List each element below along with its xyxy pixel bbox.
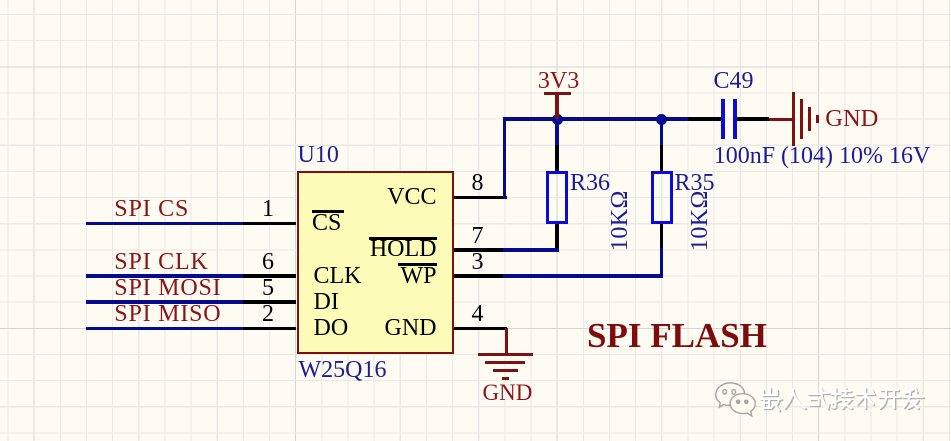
pin label HOLD (pin 7) xyxy=(370,237,437,261)
designator R35 xyxy=(675,171,715,195)
pin label VCC (pin 8) xyxy=(387,185,436,209)
wire to R36 top xyxy=(555,119,558,146)
GND bar 2 (bottom port) xyxy=(485,361,525,364)
pin number 8 xyxy=(472,171,484,195)
pin 5 lead xyxy=(243,300,296,303)
watermark WeChat logo xyxy=(713,381,758,419)
GND bar 3 (right port) xyxy=(808,107,811,131)
pin 4 lead xyxy=(454,327,507,330)
power label GND (right) xyxy=(825,107,878,132)
pin 2 lead xyxy=(243,327,296,330)
pin 7 lead xyxy=(454,248,507,251)
junction at R35 xyxy=(656,114,667,125)
watermark text 嵌入式技术开发 (drawn) xyxy=(759,386,929,414)
pin 3 lead xyxy=(454,274,507,277)
pin number 2 xyxy=(262,302,274,326)
title SPI FLASH xyxy=(587,318,767,353)
pin label DI (pin 5) xyxy=(314,290,339,314)
pin 1 lead xyxy=(243,222,296,225)
wire 3V3 bus xyxy=(503,117,688,120)
power port GND stem (right) xyxy=(769,118,793,121)
power port 3V3 bar xyxy=(544,92,571,95)
designator C49 xyxy=(714,69,754,93)
R35 bottom lead xyxy=(660,224,663,252)
wire to R35 top xyxy=(660,119,663,146)
power label 3V3 xyxy=(538,69,579,93)
net label SPI_MOSI xyxy=(114,276,221,300)
GND bar 1 (bottom port) xyxy=(478,353,533,356)
junction at 3V3/R36 xyxy=(552,114,563,125)
R36 bottom lead xyxy=(555,224,558,252)
power label GND (bottom) xyxy=(483,381,533,404)
overline over HOLD xyxy=(369,237,437,240)
pin number 3 xyxy=(472,250,484,274)
capacitor C49 right lead xyxy=(737,117,769,120)
pin 6 lead xyxy=(243,274,296,277)
pin number 7 xyxy=(472,224,484,248)
GND bar 4 (right port) xyxy=(816,115,819,123)
resistor R35 body xyxy=(651,171,674,225)
pin number 5 xyxy=(262,276,274,300)
capacitor C49 left lead xyxy=(688,117,721,120)
power port GND stem (bottom) xyxy=(505,328,508,355)
wire net SPI_MOSI xyxy=(86,300,243,303)
net label SPI_CS xyxy=(114,197,189,221)
value 10KΩ of R35 xyxy=(688,190,712,251)
designator U10 xyxy=(298,143,339,167)
value 100nF (104) 10% 16V xyxy=(714,144,931,168)
designator R36 xyxy=(570,171,610,195)
capacitor C49 right plate xyxy=(733,99,737,139)
overline over CS xyxy=(312,210,345,213)
value W25Q16 xyxy=(299,358,387,382)
pin label CLK (pin 6) xyxy=(314,264,362,288)
pin number 4 xyxy=(472,302,484,326)
pin number 6 xyxy=(262,250,274,274)
resistor R36 body xyxy=(546,171,569,225)
pin label DO (pin 2) xyxy=(314,316,349,340)
net label SPI_CLK xyxy=(114,250,208,274)
pin label GND (pin 4) xyxy=(385,316,437,340)
capacitor C49 left plate xyxy=(721,99,725,139)
wire net SPI_MISO xyxy=(86,327,243,330)
wire net SPI_CS xyxy=(86,222,243,225)
wire R36 to pin7 HOLD xyxy=(503,248,559,251)
wire pin8 riser xyxy=(503,117,506,199)
value 10KΩ of R36 xyxy=(608,190,632,251)
wire net SPI_CLK xyxy=(86,274,243,277)
pin number 1 xyxy=(262,197,274,221)
GND bar 3 (bottom port) xyxy=(493,369,518,372)
power port 3V3 stem xyxy=(555,92,558,119)
pin label CS (pin 1) xyxy=(312,211,341,235)
GND bar 4 (bottom port) xyxy=(502,377,509,380)
net label SPI_MISO xyxy=(114,302,221,326)
R36 top lead xyxy=(555,145,558,171)
IC U10 body (W25Q16) xyxy=(297,171,455,354)
GND bar 1 (right port) xyxy=(792,92,795,146)
R35 top lead xyxy=(660,145,663,171)
wire R35 to pin3 WP xyxy=(503,274,663,277)
pin 8 lead xyxy=(454,196,507,199)
GND bar 2 (right port) xyxy=(800,99,803,139)
overline over WP xyxy=(398,263,437,266)
wire R35 down xyxy=(660,248,663,278)
pin label WP (pin 3) xyxy=(401,264,437,288)
